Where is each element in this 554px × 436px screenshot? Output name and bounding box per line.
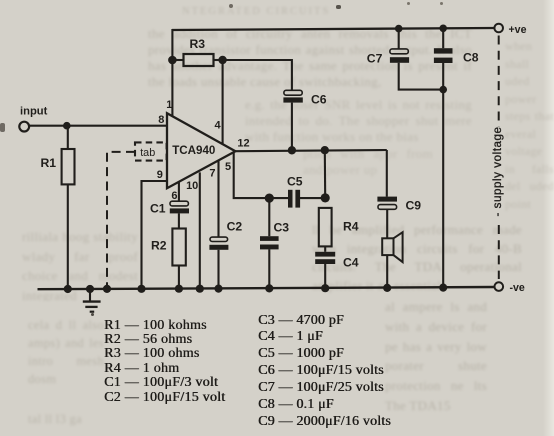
ghost mid paragraph	[245, 97, 472, 146]
svg-text:8: 8	[158, 114, 164, 126]
rail junction R1	[64, 285, 72, 293]
parts list left column	[104, 319, 225, 405]
+ve terminal	[494, 24, 503, 33]
input terminal	[19, 122, 29, 132]
svg-text:4: 4	[214, 120, 221, 132]
wire C3 down	[268, 198, 270, 236]
svg-text:9: 9	[157, 169, 163, 181]
dashed supply line lower	[498, 225, 500, 279]
capacitor C2	[210, 237, 228, 241]
ghost left band	[22, 227, 138, 301]
rail junction ground	[86, 285, 94, 293]
parts list right column	[258, 313, 391, 431]
svg-text:C7: C7	[367, 51, 383, 65]
capacitor C8	[442, 28, 444, 48]
resistor R4	[319, 208, 332, 247]
svg-text:C5: C5	[287, 175, 303, 189]
wire R3 node to C6	[223, 60, 292, 90]
capacitor C6	[284, 90, 302, 95]
rail junction C2	[214, 285, 222, 293]
wire pin6 to C1	[178, 182, 180, 201]
pin number labels	[157, 99, 250, 202]
op-amp U1 TCA940 triangle	[167, 113, 235, 188]
ghost bottom-right	[385, 297, 487, 436]
node C7/C8	[439, 86, 447, 94]
speaker LS1	[382, 238, 393, 255]
top supply rail	[172, 28, 494, 30]
-ve terminal	[495, 282, 504, 291]
wire output to C9	[386, 150, 388, 197]
labels: component designators (sans bold)	[20, 24, 527, 294]
svg-text:7: 7	[209, 168, 215, 180]
dashed wire tab to ground	[107, 152, 135, 289]
rail junction C4	[321, 284, 329, 292]
svg-text:5: 5	[225, 161, 231, 173]
ghost bottom-left	[28, 316, 104, 391]
svg-text:R3: R3	[190, 37, 206, 51]
resistor R3	[184, 54, 214, 66]
svg-text:C6: C6	[311, 93, 327, 107]
ghost top paragraph	[148, 26, 472, 106]
svg-text:-ve: -ve	[510, 282, 525, 294]
wire C9 to speaker	[386, 209, 388, 238]
svg-text:R2: R2	[151, 239, 167, 253]
wire pin1 vertical from rail to op-amp top	[171, 29, 173, 117]
node R3 left	[168, 56, 177, 65]
wire pin9 to ground rail	[142, 181, 168, 289]
ground symbol	[89, 289, 91, 301]
svg-text:C4: C4	[343, 256, 359, 270]
rail junction R2	[175, 285, 183, 293]
capacitor C3	[260, 236, 279, 241]
wire C6 to output node	[291, 103, 293, 151]
dashed supply line upper	[498, 36, 500, 128]
svg-text:1: 1	[166, 99, 172, 111]
rail junction C8	[439, 284, 447, 292]
ghost mid-low band	[312, 221, 522, 299]
resistor R2	[172, 229, 185, 266]
wire output pin12	[235, 150, 386, 151]
node output/R4	[321, 146, 329, 154]
wire pin7 to C2	[217, 161, 219, 237]
node R4 top	[321, 193, 330, 202]
resistor R1	[67, 126, 69, 149]
wire pin10 to rail	[199, 172, 201, 288]
node input/R1	[63, 122, 71, 130]
tab box (dashed)	[135, 142, 167, 160]
page edge light strip	[543, 0, 554, 436]
svg-text:TCA940: TCA940	[172, 144, 215, 157]
node output/C6	[288, 146, 296, 154]
wire pin5 down and right to C5	[234, 153, 289, 198]
svg-text:C1: C1	[150, 201, 166, 215]
specks	[229, 4, 233, 8]
rail junction tab line	[103, 285, 111, 293]
wire input to pin 8	[29, 125, 167, 127]
svg-text:6: 6	[171, 190, 177, 202]
rail junction pin10	[196, 285, 204, 293]
rail junction speaker	[383, 284, 391, 292]
wire pin4 vertical	[222, 60, 224, 144]
svg-text:C9: C9	[406, 199, 422, 213]
svg-text:10: 10	[186, 180, 198, 192]
capacitor C1	[170, 201, 188, 206]
capacitor C7	[398, 29, 400, 49]
ghost right margin column	[505, 38, 554, 216]
capacitor C4	[315, 252, 335, 257]
wire C1 to R2	[178, 213, 180, 228]
svg-text:12: 12	[237, 138, 249, 150]
capacitor C5	[288, 190, 293, 208]
ghost heading	[182, 4, 482, 17]
svg-text:R4: R4	[343, 220, 359, 234]
ghost mid paragraph 2	[303, 146, 433, 178]
node C3 branch	[265, 194, 274, 203]
svg-text:+ve: +ve	[509, 24, 527, 36]
node R3 right	[218, 56, 226, 64]
svg-text:- supply voltage: - supply voltage	[491, 126, 504, 216]
svg-text:C8: C8	[463, 51, 479, 65]
svg-text:C3: C3	[274, 221, 290, 235]
capacitor C9	[377, 197, 397, 202]
wire node to R4	[324, 150, 327, 198]
rail junction pin9	[137, 285, 145, 293]
rail junction C3	[265, 284, 273, 292]
svg-text:tab: tab	[140, 147, 155, 159]
bottom rail	[38, 287, 495, 289]
svg-text:input: input	[20, 106, 48, 118]
svg-text:R1: R1	[41, 156, 57, 170]
svg-text:C2: C2	[227, 220, 243, 234]
wire R4 to C4	[324, 246, 326, 251]
